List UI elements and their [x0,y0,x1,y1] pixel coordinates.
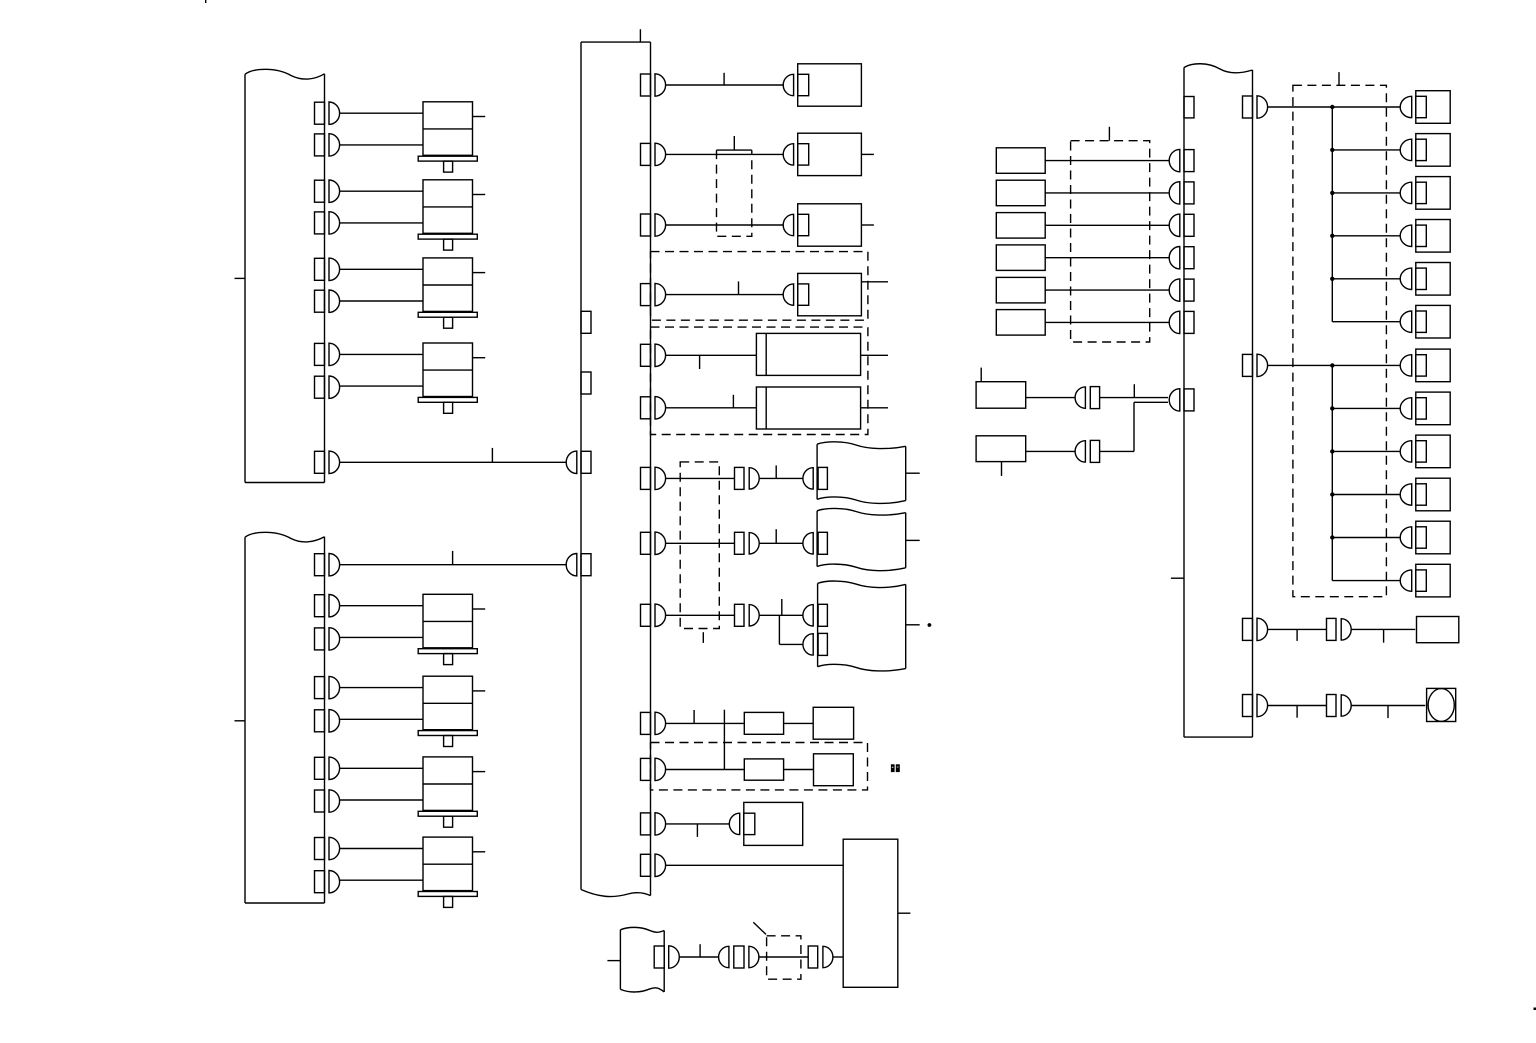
relay box left pin senders [1169,389,1194,411]
wire J/B-1 pin 9 to ECU left pin [340,461,567,463]
sender unit B tick [1001,462,1003,476]
ECU right pin 12 connector [641,813,666,835]
relay box outline (torn top) [1184,64,1253,737]
wire joint to flag 9 upper pin [759,614,803,616]
stub on J/B-1 left side [235,277,246,279]
wire ECU pin9 to joint [666,614,735,616]
bottom right dot [1534,1008,1536,1011]
sensor S4 (socket unit) [783,273,861,315]
J/B-2 pin 1 connector [315,554,340,576]
relay box left spare pin [1184,97,1194,118]
wire lamp bus to lamp L5 [1332,278,1400,280]
wire joint to flag 8 [759,542,803,544]
solenoid V1 right stub [861,354,888,356]
ECU right pin 11 connector [641,758,666,780]
wire joint C to resistor unit [1351,628,1415,630]
relay box right pin 3 [1243,618,1268,640]
wire ECU pin8 to joint [666,542,735,544]
solenoid V1 (long cartridge) [756,333,860,375]
wire ECU pin4 to sensor S4 [666,294,784,296]
tick above ECU box [639,29,641,42]
buzzer (socket unit) [729,802,802,845]
lamp bus 2 [1331,365,1333,580]
wire lamp bus to lamp L10 [1332,494,1400,496]
lamp L8 [1400,392,1450,425]
wire J/B-1 to motor M1 (-) [340,144,423,146]
flag 8 right stub [906,539,920,541]
resistor R2 [744,759,783,780]
switch SW1 box [996,148,1045,174]
motor M7 [418,757,485,827]
junction dot bus2 row 7 [1330,363,1334,367]
lamp L12 [1400,564,1450,597]
joint connector C [1327,618,1352,640]
flag 7 pin connector [803,467,828,489]
J/B-1 pin 3 connector [315,180,340,202]
flag 10 pin connector [654,946,679,968]
motor M4 [418,343,485,413]
J/B-1 pin 2 connector [315,134,340,156]
inline connector male half [749,946,759,967]
tick below dashed box [702,632,704,643]
dashed harness box lamp bus [1293,85,1387,596]
relay box left pin 6 [1169,311,1194,333]
junction dot bus1 row 3 [1330,191,1334,195]
J/B-1 pin 6 connector [315,290,340,312]
wire J/B-2 pin 1 to ECU left pin [340,564,567,566]
harness flag 9 (torn edges) [818,581,906,671]
wire lamp bus to lamp L2 [1332,149,1400,151]
flag 9 lower pin connector [803,633,827,655]
branch tick on wire [775,465,777,478]
wire J/B-2 to motor M6 (-) [340,718,423,720]
wire J/B-1 to motor M3 (+) [340,268,423,270]
wire resistor R1 to unit U1 [784,722,814,724]
J/B-2 pin 6 connector [315,757,340,779]
junction block J/B-1 outline (torn top) [245,69,325,482]
wire J/B-2 to motor M7 (+) [340,767,423,769]
ECU right pin 1 connector [641,74,666,96]
wire lamp bus to lamp L4 [1332,235,1400,237]
switch SW4 box [996,245,1045,271]
wire ECU pin7 to joint [666,477,735,479]
unit U1 [813,707,853,739]
ECU left edge spare pin B [581,372,591,394]
inline connector female half [719,946,729,967]
branch tick below wire [1383,629,1385,642]
wire lamp bus to lamp L11 [1332,537,1400,539]
ECU right pin 10 connector [641,712,666,734]
wire flag 10 to inline connector [680,956,719,958]
ECU right pin 8 connector [641,532,666,554]
J/B-2 pin 4 connector [315,676,340,698]
lamp L4 [1400,220,1450,253]
lamp L10 [1400,478,1450,511]
J/B-2 pin 2 connector [315,595,340,617]
tick above dashed box [1108,127,1110,141]
wire switch SW5 to relay box [1045,289,1169,291]
lamp L7 [1400,349,1450,382]
top edge tick [205,0,207,3]
J/B-1 pin 1 connector [315,102,340,124]
control unit box [843,839,898,987]
wire switch SW2 to relay box [1045,192,1169,194]
junction dot bus1 row 5 [1330,277,1334,281]
flag 9 right stub [906,624,920,626]
control unit right stub [898,912,911,914]
branch tick on wire [693,710,695,723]
branch tick on wire [1133,384,1135,397]
dashed shield box row 4 [651,252,868,321]
lamp L1 [1400,91,1450,124]
wire J/B-1 to motor M2 (-) [340,222,423,224]
motor M8 [418,837,485,907]
wire ECU pin6 to solenoid V2 [666,407,757,409]
wire resistor R2 to unit U2 [784,769,814,771]
ECU right pin 7 connector [641,467,666,489]
relay box right pin 1 [1243,96,1268,118]
wire ECU pin11 to resistor R2 [666,769,744,771]
wire J/B-2 to motor M6 (+) [340,687,423,689]
wire lamp bus to lamp L8 [1332,407,1400,409]
motor M1 [418,102,485,172]
sender unit B box [976,436,1026,462]
lamp L11 [1400,521,1450,554]
sensor S2 right stub [861,153,874,155]
wire ECU pin10 to resistor R1 [666,722,744,724]
ECU right pin 4 connector [641,283,666,305]
horn (circle in box) [1427,688,1456,721]
joint connector B [1075,440,1100,462]
branch tick above wire [732,395,734,408]
relay box right pin 2 [1243,354,1268,376]
wire lamp bus corner to lamp L12 [1332,580,1400,582]
flag 8 pin connector [803,532,828,554]
J/B-2 pin 8 connector [315,837,340,859]
unit U2 [814,754,854,786]
branch tick on wire [781,599,783,615]
sensor S4 right stub [861,281,888,283]
dashed grommet box [767,936,801,979]
branch wire to flag 9 lower pin [779,615,803,644]
solenoid V2 right stub [861,407,888,409]
harness flag 10 (torn edges) [620,927,664,992]
joint connector row 7 [735,467,760,489]
wire ECU pin1 to sensor S1 [666,84,784,86]
label H8 [891,764,900,772]
dashed shield box rows 5-6 [651,327,868,434]
junction dot bus2 row 10 [1330,492,1334,496]
ECU right pin 6 connector [641,397,666,419]
flag 9 upper pin connector [803,604,828,626]
J/B-1 pin 4 connector [315,212,340,234]
wire switch SW3 to relay box [1045,224,1169,226]
lamp L6 [1400,305,1450,338]
wire J/B-2 to motor M5 (-) [340,636,423,638]
J/B-2 pin 3 connector [315,628,340,650]
lamp bus 1 [1331,107,1333,322]
link wire rows 10-11 [723,710,725,770]
harness flag 7 (torn edges) [817,442,906,504]
wire to control unit [833,956,843,958]
J/B-1 pin 9 connector [315,451,340,473]
motor M2 [418,180,485,250]
wire sender B to joint [1026,450,1075,452]
wire joint B rising to relay box [1100,402,1168,451]
lamp L9 [1400,435,1450,468]
wire ECU pin5 to solenoid V1 [666,354,757,356]
relay box right pin 4 [1243,694,1268,716]
branch tick below wire [696,824,698,837]
sensor S3 (socket unit) [783,204,861,246]
wire J/B-2 to motor M7 (-) [340,799,423,801]
terminal dot [928,623,932,627]
resistor unit box [1417,617,1459,643]
switch SW2 box [996,180,1045,206]
relay box left pin 2 [1169,182,1194,204]
ECU left pin from J/B-2 [566,554,591,576]
wire joint D to horn [1351,705,1425,707]
ECU main box outline (torn bottom) [581,42,651,896]
joint connector D [1327,695,1352,717]
wire relay to lamp bus 1 [1268,106,1401,108]
wire sender A to joint [1026,397,1075,399]
motor M5 [418,594,485,664]
control unit pin connector [808,946,833,968]
relay box left stub [1171,577,1184,579]
branch tick below wire [1387,706,1389,719]
lamp L2 [1400,134,1450,167]
dashed harness box over wire 2 [717,150,752,236]
wire inline connector to grommet [759,956,808,958]
wire J/B-2 to motor M8 (-) [340,879,423,881]
ECU right pin 2 connector [641,143,666,165]
wire ECU pin13 to control unit [666,864,844,866]
sender unit A box [976,382,1026,409]
junction dot bus1 row 4 [1330,234,1334,238]
wire ECU pin2 to sensor S2 [666,153,784,155]
junction dot bus2 row 9 [1330,449,1334,453]
wire lamp bus to lamp L9 [1332,450,1400,452]
switch SW5 box [996,277,1045,303]
ECU left pin from J/B-1 [566,451,591,473]
wire J/B-1 to motor M4 (-) [340,385,423,387]
branch tick below wire [1296,629,1298,641]
relay box left pin 4 [1169,247,1194,269]
wire J/B-2 to motor M5 (+) [340,605,423,607]
flag 7 right stub [906,472,920,474]
wire lamp bus corner to lamp L6 [1332,321,1400,323]
dashed harness box switches [1071,141,1150,342]
sensor S2 (socket unit) [783,133,861,175]
junction dot bus1 row 2 [1330,148,1334,152]
lamp L5 [1400,263,1450,296]
wire ECU pin12 to buzzer [666,823,730,825]
switch SW3 box [996,213,1045,239]
wire J/B-1 to motor M3 (-) [340,300,423,302]
wire joint to flag 7 [759,477,803,479]
relay box left pin 3 [1169,214,1194,236]
J/B-1 pin 8 connector [315,376,340,398]
lamp L3 [1400,177,1450,210]
joint connector row 9 [735,604,760,626]
branch tick on wire [491,448,493,462]
branch tick on wire [775,529,777,543]
solenoid V2 (long cartridge) [756,387,860,429]
wire J/B-2 to motor M8 (+) [340,848,423,850]
ECU right pin 13 connector [641,854,666,876]
wire relay pin4 to joint [1268,705,1327,707]
joint connector A [1075,387,1100,409]
wire relay pin3 to joint [1268,628,1327,630]
tick above dashed box [1338,72,1340,85]
junction dot bus2 row 11 [1330,535,1334,539]
J/B-2 pin 9 connector [315,871,340,893]
branch tick on wire [699,944,701,957]
stub on J/B-2 left side [235,720,246,722]
wire ECU pin3 to sensor S3 [666,224,784,226]
wire switch SW6 to relay box [1045,321,1169,323]
dashed harness box rows 7-9 [680,462,719,629]
tick above dashed box [733,136,735,150]
J/B-1 pin 7 connector [315,343,340,365]
wire switch SW1 to relay box [1045,160,1169,162]
ECU right pin 3 connector [641,214,666,236]
wire J/B-1 to motor M4 (+) [340,353,423,355]
relay box left pin 5 [1169,279,1194,301]
ECU right pin 5 connector [641,344,666,366]
sensor S3 right stub [861,224,874,226]
wire joint A to relay box [1100,397,1168,399]
inline connector body [734,946,744,968]
branch tick below wire [1296,706,1298,718]
sensor S1 (socket unit) [783,64,861,106]
flag 10 left stub [607,960,620,962]
wire J/B-1 to motor M1 (+) [340,112,423,114]
branch tick below wire [699,355,701,369]
wire relay to lamp bus 2 [1268,364,1401,366]
junction dot bus2 row 8 [1330,406,1334,410]
harness flag 8 (torn edges) [817,508,906,570]
wire J/B-1 to motor M2 (+) [340,190,423,192]
J/B-1 pin 5 connector [315,258,340,280]
J/B-2 pin 5 connector [315,710,340,732]
switch SW6 box [996,310,1045,336]
joint connector row 8 [735,532,760,554]
grommet leader line [753,922,766,934]
ECU left edge spare pin A [581,311,591,333]
branch tick on wire [452,551,454,565]
ECU right pin 9 connector [641,604,666,626]
resistor R1 [744,712,783,734]
junction block J/B-2 outline (torn top) [245,532,325,903]
wire lamp bus to lamp L3 [1332,192,1400,194]
branch tick on wire [723,73,725,85]
branch tick on wire [738,281,740,294]
sender unit A tick [980,368,982,382]
relay box left pin 1 [1169,149,1194,171]
motor M3 [418,258,485,328]
wire switch SW4 to relay box [1045,257,1169,259]
motor M6 [418,676,485,746]
junction dot bus1 row 1 [1330,105,1334,109]
dashed shield box row 11 [651,743,868,790]
J/B-2 pin 7 connector [315,790,340,812]
